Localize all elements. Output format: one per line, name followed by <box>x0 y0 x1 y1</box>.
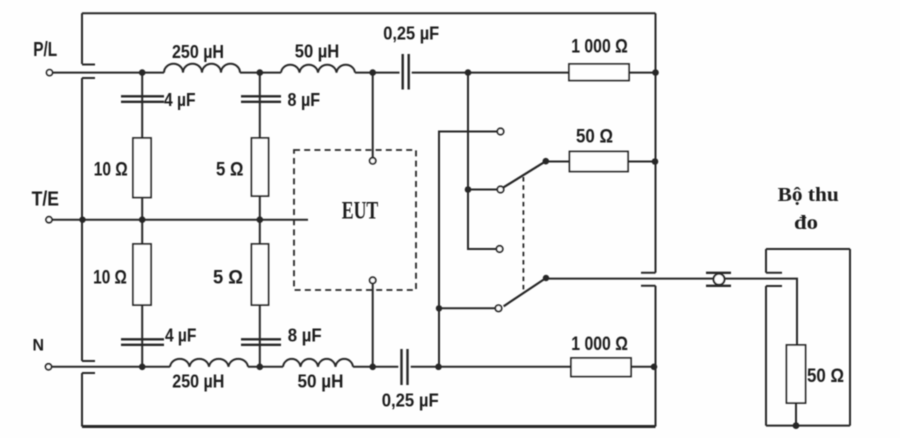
coax connector bars <box>706 273 731 286</box>
svg-text:10 Ω: 10 Ω <box>94 160 128 181</box>
node 50ohm case <box>652 158 659 165</box>
svg-text:Bộ thu: Bộ thu <box>778 185 839 206</box>
svg-text:50 µH: 50 µH <box>295 42 340 62</box>
inductor 250uH bottom <box>170 359 248 367</box>
resistor 10ohm top <box>133 138 151 198</box>
node top rail EUT branch <box>369 69 376 76</box>
node bottom rail 8uF branch <box>257 364 264 371</box>
svg-text:0,25 µF: 0,25 µF <box>383 24 439 44</box>
capacitor 8uF top <box>241 96 281 102</box>
enclosure left wall upper segment <box>81 13 83 64</box>
node T/E case <box>79 217 85 223</box>
wire branch B top <box>259 73 261 138</box>
receiver box right edge <box>849 249 851 426</box>
node lower contact stub <box>436 305 442 311</box>
svg-text:4 µF: 4 µF <box>165 326 197 346</box>
node top rail case <box>652 69 659 76</box>
svg-text:250 µH: 250 µH <box>172 42 224 62</box>
wire branch B bottom to rail <box>259 305 261 367</box>
node top rail 8uF branch <box>257 69 264 76</box>
wire branch B top to T/E <box>259 196 261 220</box>
svg-text:T/E: T/E <box>32 188 59 211</box>
enclosure right wall upper segment <box>655 13 657 273</box>
wire branch A bottom to rail <box>141 305 143 367</box>
svg-text:EUT: EUT <box>342 198 379 225</box>
resistor 1000ohm top <box>569 64 629 81</box>
contact circle lower-top-feed <box>496 246 502 252</box>
wire branch A top <box>141 73 143 138</box>
receiver feedthrough lips <box>766 273 782 286</box>
switch blade upper <box>503 161 546 187</box>
svg-text:5 Ω: 5 Ω <box>216 160 243 181</box>
coax feedthrough lips <box>641 273 656 286</box>
svg-text:50 Ω: 50 Ω <box>576 127 613 148</box>
node bottom rail switch branch <box>435 364 442 371</box>
node T/E branch A <box>139 216 146 223</box>
switch gang dashed link <box>522 177 524 293</box>
capacitor 8uF bottom <box>241 339 281 345</box>
receiver box left wall upper <box>765 249 767 273</box>
wire bottom rail capacitor to resistor <box>411 366 571 368</box>
switch pivot lower <box>543 275 549 281</box>
svg-text:1 000 Ω: 1 000 Ω <box>571 36 628 58</box>
enclosure left wall middle segment <box>81 78 83 361</box>
wire top rail right <box>629 72 656 74</box>
svg-text:50 µH: 50 µH <box>298 372 344 392</box>
EUT top pin circle <box>370 158 376 164</box>
N feedthrough lips <box>82 361 95 373</box>
resistor 5ohm bottom <box>252 244 269 305</box>
wire T/E rail <box>52 219 308 221</box>
wire switch feed from top rail <box>468 73 496 249</box>
EUT dashed box <box>294 150 416 290</box>
svg-text:250 µH: 250 µH <box>172 372 224 392</box>
switch pivot upper <box>543 158 550 165</box>
wire bottom feed line <box>439 132 497 367</box>
contact circle upper switch <box>497 186 503 192</box>
svg-text:đo: đo <box>794 213 818 234</box>
node bottom rail 4uF branch <box>139 364 146 371</box>
resistor 50ohm receiver <box>787 345 806 403</box>
terminal P/L <box>47 70 53 76</box>
resistor 50ohm mid <box>570 152 629 172</box>
wire lower pivot to coax and receiver <box>546 279 797 345</box>
capacitor 0,25uF bottom <box>402 349 408 385</box>
wire bottom rail right <box>631 366 656 368</box>
node bottom rail case <box>651 364 658 371</box>
wire branch B bottom <box>259 220 261 244</box>
wire top rail between inductors <box>240 72 281 74</box>
inductor 250uH top <box>164 64 240 73</box>
enclosure bottom edge <box>82 425 656 428</box>
resistor 1000ohm bottom <box>571 358 631 377</box>
node bottom rail EUT branch <box>369 364 376 371</box>
wire lower switch contact stub <box>439 307 495 309</box>
coax connector circle <box>714 274 725 285</box>
capacitor 4uF top <box>121 96 164 102</box>
inductor 50uH bottom <box>283 359 353 367</box>
wire top rail to capacitor <box>355 72 400 74</box>
node T/E branch B <box>257 216 264 223</box>
wire EUT bottom pin <box>372 283 374 366</box>
receiver box left wall lower <box>765 286 767 426</box>
svg-text:5 Ω: 5 Ω <box>213 268 243 289</box>
wire receiver resistor to bottom <box>795 403 797 426</box>
resistor 10ohm bottom <box>133 244 151 305</box>
node top rail 4uF branch <box>139 69 146 76</box>
wire bottom rail between inductors <box>248 366 283 368</box>
svg-text:8 µF: 8 µF <box>288 90 321 110</box>
wire top rail left <box>53 72 164 74</box>
resistor 5ohm top <box>252 138 269 196</box>
contact circle lower switch <box>495 305 501 311</box>
EUT bottom pin circle <box>370 277 376 283</box>
capacitor 0,25uF top <box>403 54 409 90</box>
wire upper pivot to 50ohm <box>546 161 570 163</box>
switch blade lower <box>504 278 546 306</box>
svg-text:4 µF: 4 µF <box>164 90 196 110</box>
wire bottom rail left <box>52 366 171 368</box>
wire EUT top pin <box>372 73 374 158</box>
node top rail switch branch <box>465 69 472 76</box>
enclosure left wall lower segment <box>81 373 83 427</box>
enclosure top edge <box>82 12 656 14</box>
capacitor 4uF bottom <box>121 339 164 345</box>
receiver box bottom edge <box>766 425 850 427</box>
svg-text:1 000 Ω: 1 000 Ω <box>571 333 628 355</box>
svg-text:8 µF: 8 µF <box>288 326 322 346</box>
wire 50ohm to case <box>628 161 656 163</box>
wire branch A bottom <box>141 220 143 244</box>
contact circle upper-bottom-feed <box>497 128 503 134</box>
svg-text:0,25 µF: 0,25 µF <box>382 391 439 411</box>
node receiver bottom <box>793 422 800 429</box>
svg-text:50 Ω: 50 Ω <box>807 366 844 387</box>
svg-text:P/L: P/L <box>33 39 57 61</box>
wire bottom rail to capacitor <box>353 366 398 368</box>
wire branch A top to T/E <box>141 198 143 220</box>
wire top rail capacitor to resistor <box>412 72 569 74</box>
svg-text:10 Ω: 10 Ω <box>93 268 127 289</box>
node upper contact stub <box>465 186 472 193</box>
terminal N <box>46 364 52 370</box>
terminal T/E <box>46 217 52 223</box>
svg-text:N: N <box>32 337 44 355</box>
wire upper switch contact stub <box>468 189 497 191</box>
enclosure right wall lower segment <box>655 286 657 427</box>
receiver box top edge <box>766 248 850 250</box>
P/L feedthrough lips <box>82 65 95 79</box>
inductor 50uH top <box>281 65 355 73</box>
